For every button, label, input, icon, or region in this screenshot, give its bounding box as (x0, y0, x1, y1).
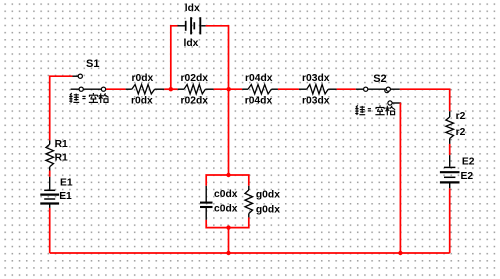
svg-text:E1: E1 (60, 177, 73, 188)
wire: right column E2 bottom to bottom rail (449, 188, 451, 253)
label S1 key = space annotation (69, 93, 108, 103)
wire: bottom rail (50, 252, 450, 254)
svg-text:R1: R1 (55, 152, 68, 163)
wire: top rail segment r02dx to r04dx through node (214, 88, 243, 90)
svg-text:ldx: ldx (184, 38, 199, 49)
switch S2 (356, 87, 400, 105)
wire: top rail segment r04dx to r03dx (278, 88, 299, 90)
node: box bottom (226, 225, 230, 229)
svg-text:S2: S2 (373, 73, 386, 85)
switch S1 (71, 74, 106, 91)
capacitor c0dx (200, 186, 213, 220)
svg-text:c0dx: c0dx (214, 189, 238, 200)
svg-text:r04dx: r04dx (245, 95, 273, 106)
wire: E1 bottom down left column to bottom rail (49, 208, 51, 253)
svg-text:r04dx: r04dx (245, 73, 273, 84)
svg-text:r03dx: r03dx (302, 95, 330, 106)
node: bottom rail / box (226, 251, 230, 255)
node: rail / ldx left (169, 87, 173, 91)
node: rail / middle vertical (227, 87, 231, 91)
svg-text:R1: R1 (55, 139, 68, 150)
wire: ldx branch left riser (171, 26, 178, 89)
svg-text:E1: E1 (59, 191, 72, 202)
resistor r0dx (126, 85, 165, 94)
wire: top rail segment r0dx to r02dx through node (164, 88, 178, 90)
wire: box bottom center to bottom rail (228, 228, 230, 253)
resistor r02dx (178, 85, 214, 94)
wire: ldx branch right side down to rail (206, 26, 229, 89)
wire: top rail S2 to right column corner down to r2 (400, 89, 450, 111)
node: box top (226, 173, 230, 177)
resistor r2 (446, 111, 454, 144)
node: bottom rail / S2 throw (398, 251, 402, 255)
battery E1 (40, 177, 59, 208)
svg-text:r02dx: r02dx (181, 73, 209, 84)
wire: middle vertical rail to parallel box top (228, 89, 230, 175)
svg-text:r2: r2 (456, 111, 466, 122)
wire: S2 lower throw down to bottom rail (390, 102, 401, 104)
svg-text:ldx: ldx (185, 3, 200, 14)
battery ldx (178, 17, 206, 34)
wire: S1 top throw to left column top corner (50, 76, 73, 140)
svg-text:r03dx: r03dx (302, 73, 330, 84)
svg-text:r0dx: r0dx (132, 73, 154, 84)
svg-text:r0dx: r0dx (131, 95, 153, 106)
svg-text:c0dx: c0dx (214, 203, 238, 214)
svg-text:r02dx: r02dx (181, 95, 209, 106)
wire: R1 to E1 (49, 171, 51, 177)
wire: r2 to E2 (449, 144, 451, 155)
wire: parallel box bottom (206, 217, 249, 227)
resistor r03dx (299, 85, 337, 94)
resistor g0dx (245, 186, 253, 218)
wire: parallel box top (206, 175, 249, 186)
wire: top rail segment S1 to r0dx (106, 88, 126, 90)
wire: top rail segment r03dx to S2 (337, 88, 356, 90)
svg-text:E2: E2 (461, 171, 474, 182)
svg-text:g0dx: g0dx (256, 189, 280, 200)
resistor R1 (46, 140, 54, 170)
svg-text:E2: E2 (462, 157, 475, 168)
resistor r04dx (242, 85, 278, 94)
svg-text:S1: S1 (86, 58, 99, 70)
svg-text:r2: r2 (456, 127, 466, 138)
label S2 key = space annotation (355, 105, 395, 115)
svg-text:g0dx: g0dx (256, 204, 280, 215)
battery E2 (440, 155, 460, 188)
